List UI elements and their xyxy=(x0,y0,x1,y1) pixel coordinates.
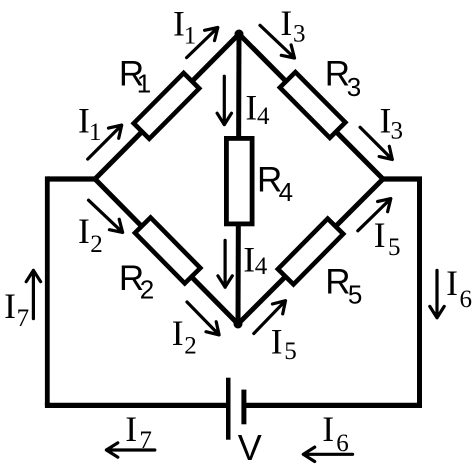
svg-text:I: I xyxy=(322,409,334,449)
svg-text:3: 3 xyxy=(391,118,404,145)
arrow I5 upper xyxy=(358,199,391,231)
wire left node to top node xyxy=(95,34,239,179)
svg-text:3: 3 xyxy=(347,72,361,102)
svg-text:7: 7 xyxy=(139,427,152,454)
wire bottom node to right node xyxy=(238,179,383,324)
resistor R1 xyxy=(134,73,199,139)
wire left node to left rail xyxy=(48,176,96,181)
arrow I1 upper xyxy=(187,28,218,58)
svg-text:I: I xyxy=(271,322,283,362)
svg-text:4: 4 xyxy=(255,253,268,280)
svg-text:2: 2 xyxy=(90,231,103,258)
svg-text:4: 4 xyxy=(279,177,293,207)
arrow I5 lower xyxy=(254,301,286,334)
resistor R2 xyxy=(135,217,200,283)
svg-text:I: I xyxy=(446,263,458,303)
svg-text:V: V xyxy=(238,427,262,468)
svg-text:I: I xyxy=(243,240,255,280)
arrow I6 right xyxy=(430,270,444,318)
arrow I4 upper xyxy=(217,76,231,124)
svg-text:I: I xyxy=(78,211,90,251)
arrow I7 left xyxy=(26,270,40,318)
resistor R3 xyxy=(280,72,345,138)
battery V positive plate xyxy=(226,378,231,440)
arrow I2 lower xyxy=(187,302,219,335)
svg-text:I: I xyxy=(125,409,137,449)
svg-text:1: 1 xyxy=(89,119,102,146)
arrow I4 lower xyxy=(218,240,232,287)
node top junction xyxy=(235,30,244,39)
wire left node to bottom node xyxy=(95,179,238,324)
svg-text:5: 5 xyxy=(348,280,362,310)
svg-text:1: 1 xyxy=(184,22,197,49)
svg-text:5: 5 xyxy=(388,234,401,261)
wire bottom rail left to battery xyxy=(45,403,228,408)
svg-text:R: R xyxy=(325,262,350,301)
arrow I1 lower xyxy=(88,125,122,159)
wire left vertical rail xyxy=(45,176,50,405)
svg-text:I: I xyxy=(172,313,184,353)
wire right rail to right node xyxy=(383,176,422,181)
svg-text:2: 2 xyxy=(184,332,197,359)
svg-text:3: 3 xyxy=(293,21,306,48)
svg-text:I: I xyxy=(245,88,257,128)
arrow I2 upper xyxy=(89,200,123,232)
svg-text:4: 4 xyxy=(257,103,270,130)
svg-text:6: 6 xyxy=(336,430,349,457)
arrow I3 lower xyxy=(360,127,392,159)
svg-text:1: 1 xyxy=(137,68,151,98)
wire battery to bottom rail right xyxy=(244,403,420,408)
wire right vertical rail xyxy=(417,179,422,408)
svg-text:I: I xyxy=(374,215,386,255)
wire top node to right node xyxy=(239,34,383,179)
battery V negative plate xyxy=(241,390,246,425)
arrow I6 bottom xyxy=(303,447,352,461)
resistor R5 xyxy=(278,219,343,285)
svg-text:I: I xyxy=(280,3,292,43)
node bottom junction xyxy=(234,320,243,329)
arrow I7 bottom xyxy=(106,443,154,457)
arrow I3 upper xyxy=(260,25,295,58)
svg-text:I: I xyxy=(4,286,16,326)
resistor R4 xyxy=(226,138,252,224)
svg-text:2: 2 xyxy=(140,275,154,305)
svg-text:5: 5 xyxy=(284,338,297,365)
svg-text:6: 6 xyxy=(460,286,473,313)
wire center vertical top node to bottom node xyxy=(238,34,239,324)
svg-text:7: 7 xyxy=(17,305,30,332)
